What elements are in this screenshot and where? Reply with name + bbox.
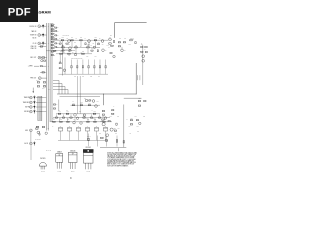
capacitor C3 <box>42 41 44 45</box>
label value 51 <box>115 133 117 135</box>
wire J1 to bus <box>41 25 47 27</box>
resistor RB10 <box>51 47 55 49</box>
wire lowtick3 <box>70 114 72 117</box>
svg-text:R69: R69 <box>79 110 81 112</box>
svg-text:22k: 22k <box>110 35 112 37</box>
svg-text:R25: R25 <box>68 51 70 53</box>
svg-text:Q22: Q22 <box>114 128 116 130</box>
wire lowtick9 <box>74 118 76 121</box>
capacitor CL5 <box>94 60 96 75</box>
svg-text:C23: C23 <box>89 101 91 103</box>
svg-text:C44: C44 <box>108 47 110 49</box>
svg-text:R95 4.7: R95 4.7 <box>87 136 91 138</box>
svg-text:4.7k: 4.7k <box>129 133 131 135</box>
svg-text:R33: R33 <box>82 76 84 78</box>
resistor RB11 <box>51 51 55 53</box>
svg-text:LINE-1 IN: LINE-1 IN <box>30 46 36 48</box>
resistor R77f <box>90 117 92 118</box>
label value 8 <box>80 45 82 47</box>
resistor R11 <box>40 72 46 73</box>
label REC OUT <box>30 57 36 59</box>
wire low row 2 <box>51 121 113 123</box>
resistor R27 <box>59 41 61 44</box>
svg-text:TAPE IN: TAPE IN <box>31 30 36 33</box>
resistor R84 <box>116 123 117 125</box>
wire lowtick10 <box>87 118 89 121</box>
input jack JB5 <box>25 129 32 132</box>
svg-text:C28: C28 <box>143 116 145 118</box>
fuse F3 <box>76 126 80 131</box>
wire JB5 link <box>30 132 32 143</box>
svg-text:R76: R76 <box>115 133 117 135</box>
label value 42 <box>110 35 112 37</box>
svg-text:2SC2921: 2SC2921 <box>85 147 91 149</box>
label row1b values <box>60 42 95 44</box>
svg-text:GND: GND <box>25 130 28 132</box>
resistor R67 <box>144 100 146 101</box>
wire mid row 3 <box>56 53 92 55</box>
svg-text:B C E: B C E <box>87 171 90 173</box>
label value 47 <box>118 128 120 130</box>
wire vdrop2 <box>76 76 78 114</box>
resistor R21 <box>62 45 65 48</box>
transistor Q9 <box>142 59 145 62</box>
svg-text:56k: 56k <box>60 42 62 44</box>
svg-text:PRE OUT: PRE OUT <box>30 78 36 80</box>
resistor RC3 <box>55 35 59 37</box>
svg-text:F0: F0 <box>52 126 54 128</box>
label value 46 <box>106 127 108 129</box>
resistor R68 <box>138 105 140 106</box>
label pkg row left <box>46 150 52 152</box>
svg-text:R24: R24 <box>60 51 62 53</box>
resistor R66 <box>138 98 141 101</box>
input jack JB1 TAPE PB <box>24 96 32 99</box>
wire ladder bottom <box>59 73 109 75</box>
label value 13 <box>87 55 89 57</box>
wire V4 <box>95 41 97 47</box>
label AUX-2 IN <box>30 48 36 50</box>
svg-text:C4: C4 <box>85 38 87 40</box>
wire V6 <box>62 48 64 53</box>
fuse F4 <box>85 126 89 131</box>
svg-text:AC IN: AC IN <box>25 142 29 145</box>
bus junction N5 <box>47 65 50 68</box>
svg-text:2k: 2k <box>57 35 59 37</box>
label FUNCTION bar <box>38 96 42 120</box>
svg-text:C31 C32 C33 C34 C35: C31 C32 C33 C34 C35 <box>71 57 83 59</box>
resistor R53 <box>141 51 143 52</box>
resistor R77b <box>55 117 57 118</box>
node FB1 <box>102 93 105 96</box>
resistor R86 <box>101 137 104 138</box>
resistor RB9 <box>51 44 55 46</box>
label MD IN <box>33 37 37 39</box>
capacitor CB4 <box>33 110 35 114</box>
resistor R65 <box>88 102 91 105</box>
svg-text:PDF: PDF <box>8 7 31 19</box>
ground G1 <box>38 131 41 136</box>
label value 53 <box>137 131 139 133</box>
bus wire B3 <box>49 23 51 122</box>
svg-text:R29: R29 <box>98 41 100 43</box>
svg-text:TAPE REC: TAPE REC <box>23 101 29 104</box>
bus wire B4 <box>51 23 53 122</box>
label value 31 <box>86 118 88 120</box>
wire V7 <box>75 48 77 53</box>
label value 44 <box>113 106 115 108</box>
wire fuse rail <box>58 139 108 141</box>
wire JB4 <box>36 111 47 113</box>
wire lowtick4 <box>83 114 85 117</box>
wire Q7 <box>121 47 123 49</box>
resistor R79 <box>103 119 106 122</box>
resistor R87 <box>130 117 133 120</box>
resistor R23 <box>87 45 90 48</box>
svg-text:MD IN: MD IN <box>33 37 37 39</box>
label value 22 <box>89 101 91 103</box>
resistor R80 <box>112 110 114 111</box>
transistor Q3 <box>101 40 104 46</box>
svg-text:Q1: Q1 <box>68 43 70 45</box>
package TO220 label <box>70 150 76 152</box>
wire sel vert 2 <box>64 58 66 75</box>
wire vdrop1 <box>58 100 60 111</box>
wire lowtick2 <box>63 114 65 117</box>
resistor R12 <box>61 37 64 41</box>
label value 54 <box>48 128 50 130</box>
label value 10 <box>64 52 66 54</box>
label value 15 <box>68 55 70 57</box>
svg-text:R31: R31 <box>59 61 61 63</box>
resistor R93 <box>106 139 107 141</box>
svg-text:1k: 1k <box>54 36 56 38</box>
svg-text:T1 POWER: T1 POWER <box>35 139 41 141</box>
transistor Q5 <box>74 53 77 56</box>
svg-text:R30: R30 <box>91 48 93 50</box>
resistor R75 <box>60 119 63 122</box>
svg-text:R73: R73 <box>93 111 95 113</box>
svg-text:S1-b: S1-b <box>42 88 45 90</box>
wire JB6 down <box>30 145 32 160</box>
fuse F6 <box>103 126 107 131</box>
wire row2b <box>58 50 75 52</box>
svg-text:R87: R87 <box>131 117 133 119</box>
transistor Q14 <box>80 122 83 125</box>
label value 35 <box>110 116 112 118</box>
label SPKR <box>28 66 33 68</box>
relay RY1 <box>41 57 47 62</box>
input jack JB2 TAPE REC <box>23 101 32 104</box>
label value 19 <box>98 76 100 78</box>
svg-text:1k: 1k <box>56 104 58 106</box>
label value 49 <box>137 126 139 128</box>
resistor R77d <box>70 117 72 118</box>
svg-text:9: 9 <box>70 177 72 180</box>
svg-text:R10: R10 <box>95 55 97 57</box>
transistor Q23 <box>106 134 109 137</box>
svg-text:R18: R18 <box>94 37 96 39</box>
svg-text:NOTICE FOR IMPROVEMENT.: NOTICE FOR IMPROVEMENT. <box>107 165 129 167</box>
package TO92 pins <box>41 171 44 173</box>
resistor R97 <box>123 141 124 143</box>
svg-text:100k: 100k <box>129 44 132 46</box>
capacitor CL1 <box>71 60 73 75</box>
svg-text:B C E: B C E <box>58 171 61 173</box>
input jack J6 <box>34 66 46 67</box>
svg-text:B C E: B C E <box>71 171 74 173</box>
svg-text:F1: F1 <box>60 126 62 128</box>
svg-text:2k: 2k <box>57 30 59 32</box>
wire low row 1 <box>56 113 100 115</box>
resistor R77e <box>83 117 85 118</box>
package TO220 <box>69 152 78 169</box>
svg-text:R3: R3 <box>76 38 78 40</box>
transistor Q10 <box>63 69 66 72</box>
label value 23 <box>58 110 60 112</box>
resistor R77g <box>98 117 100 118</box>
label value 36 <box>117 116 119 118</box>
resistor R73 <box>93 111 96 114</box>
svg-text:C30: C30 <box>99 133 101 135</box>
svg-text:C6: C6 <box>72 45 74 47</box>
resistor R26 <box>82 51 85 54</box>
resistor RB3 <box>51 29 55 31</box>
svg-text:R66: R66 <box>139 98 141 100</box>
resistor R72 <box>66 111 69 114</box>
input jack J5 <box>38 56 41 59</box>
transistor Q25 <box>45 132 47 134</box>
bus junction N3 <box>47 42 50 45</box>
svg-text:10k: 10k <box>129 126 131 128</box>
label value 24 <box>66 110 68 112</box>
PDF badge <box>0 0 38 22</box>
wire lowtick7 <box>59 118 61 121</box>
package TO126 label <box>57 152 62 154</box>
svg-text:Q16: Q16 <box>102 116 104 118</box>
wire F6 drop <box>105 131 107 140</box>
bus junction N4 <box>45 56 48 59</box>
svg-text:B+: B+ <box>145 49 147 51</box>
wire F1 drop <box>60 131 62 140</box>
bus wire B1 <box>45 23 47 131</box>
wire V5 <box>88 41 90 47</box>
svg-text:R72: R72 <box>110 116 112 118</box>
resistor R35 <box>62 50 64 51</box>
label value 33 <box>102 118 104 120</box>
label value 4 <box>85 38 87 40</box>
wire J3 to bus <box>41 42 47 44</box>
wire vdrop3 <box>79 76 81 114</box>
label value 5 <box>99 38 101 40</box>
wire bus H2 <box>60 95 101 97</box>
transistor Q8 <box>142 55 145 58</box>
label value 40 <box>119 38 121 40</box>
resistor R54 <box>145 51 147 52</box>
svg-text:C22: C22 <box>90 76 92 78</box>
resistor R45 <box>118 42 120 43</box>
capacitor C2 <box>42 33 44 37</box>
wire F5 drop <box>96 131 98 140</box>
resistor R63 <box>72 102 75 105</box>
svg-text:R7: R7 <box>91 45 93 47</box>
svg-text:2.2k: 2.2k <box>74 42 76 44</box>
resistor R82 <box>102 119 104 120</box>
row mute <box>46 50 58 51</box>
node FB2 <box>135 93 138 96</box>
wire V8 <box>87 48 89 53</box>
notes text block <box>107 148 137 167</box>
capacitor CL2 <box>76 60 78 75</box>
package TO3P label <box>85 147 91 149</box>
resistor R89 <box>130 124 132 125</box>
label value 1 <box>59 38 61 40</box>
wire bend W3 <box>53 87 65 95</box>
resistor R91 <box>36 126 39 127</box>
wire feedback <box>103 63 136 105</box>
page number 9 <box>70 177 72 180</box>
label value 16 <box>74 76 76 78</box>
label value 29 <box>67 118 69 120</box>
resistor RB7 <box>51 39 55 41</box>
input jack J7 <box>38 77 46 80</box>
wire bend W4 <box>53 90 68 95</box>
transistor Q4 <box>69 47 72 50</box>
resistor R94 <box>116 140 117 142</box>
wire V9 <box>59 54 61 62</box>
svg-text:C21: C21 <box>74 76 76 78</box>
label value 18 <box>90 76 92 78</box>
svg-text:Q7: Q7 <box>124 50 126 52</box>
resistor R60 <box>89 100 91 101</box>
resistor R74 <box>53 119 56 122</box>
resistor R51 <box>141 44 144 47</box>
resistor R46 <box>123 42 125 43</box>
resistor R83 <box>108 121 110 122</box>
wire V1 <box>62 41 64 47</box>
svg-text:MD PB: MD PB <box>25 107 29 109</box>
wire V3 <box>80 41 82 47</box>
wire sel vert 1 <box>62 45 64 76</box>
label value 50 <box>99 133 101 135</box>
resistor R31 <box>59 61 61 64</box>
label value 52 <box>129 133 131 135</box>
wire out rail <box>123 105 125 148</box>
label right rail <box>145 49 147 51</box>
svg-text:2SB649: 2SB649 <box>57 152 62 154</box>
transistor Q11 <box>74 114 77 117</box>
capacitor CB2 <box>33 100 35 104</box>
svg-text:R42: R42 <box>107 45 109 47</box>
transistor Q21 <box>100 121 105 126</box>
fuse F1 <box>58 126 62 131</box>
wire F3 drop <box>78 131 80 140</box>
resistor R43 <box>130 37 133 40</box>
label row2 values <box>63 49 70 51</box>
wire drop D4 <box>88 134 90 147</box>
title SCHEMATIC DIAGRAM <box>7 9 51 14</box>
wire drop D2 <box>106 136 108 147</box>
label value 11 <box>72 52 74 54</box>
label value 20 <box>73 101 75 103</box>
capacitor CL4 <box>88 60 90 75</box>
input jack J3 CD IN <box>33 42 41 45</box>
resistor R44 <box>108 45 113 49</box>
wire lowtick1 <box>56 114 58 117</box>
resistor RB12 <box>51 54 55 56</box>
transistor Q1 <box>68 40 71 46</box>
svg-text:2k: 2k <box>57 27 59 29</box>
label value 56 <box>44 85 46 87</box>
svg-text:R75: R75 <box>137 126 139 128</box>
resistor RB1 <box>51 24 55 26</box>
label value 17 <box>82 76 84 78</box>
resistor R29 <box>97 41 99 44</box>
bus junction N6 <box>45 77 48 80</box>
input jack J1 PHONO IN <box>30 25 41 28</box>
label PRE OUT <box>30 78 36 80</box>
wire to power amp <box>115 23 147 38</box>
transistor Q24 <box>139 122 141 124</box>
resistor R76 <box>67 119 70 122</box>
resistor RC5 <box>55 43 59 45</box>
svg-text:330 0.022 10k: 330 0.022 10k <box>63 49 70 51</box>
svg-text:CD IN: CD IN <box>33 43 37 45</box>
svg-text:1k: 1k <box>80 45 82 47</box>
svg-text:R62: R62 <box>81 101 83 103</box>
svg-text:R26: R26 <box>82 51 84 53</box>
bus junction N1 <box>47 25 50 28</box>
resistor R78 <box>94 119 97 122</box>
label value 34 <box>102 116 104 118</box>
resistor RC6 <box>55 46 59 48</box>
label value 3 <box>76 38 78 40</box>
svg-text:C14: C14 <box>49 89 51 91</box>
wire lowtick11 <box>94 118 96 121</box>
transistor Q7 <box>121 49 126 52</box>
resistor RB4 <box>51 31 55 33</box>
resistor RD1 <box>53 104 57 106</box>
resistor R36 <box>69 50 71 51</box>
label bottom left <box>35 139 41 141</box>
transistor QB1 <box>37 131 39 133</box>
label value 26 <box>91 110 93 112</box>
resistor R77 <box>87 119 90 122</box>
svg-text:NOTE: ALL RESISTANCE VALUES IN: NOTE: ALL RESISTANCE VALUES IN OHM. <box>107 151 137 154</box>
capacitor C1 <box>42 24 44 28</box>
svg-text:F5: F5 <box>96 126 98 128</box>
label value 43 <box>141 43 143 45</box>
wire right rail <box>142 45 144 85</box>
wire JB2 <box>36 101 47 103</box>
svg-text:R12: R12 <box>61 37 63 39</box>
label value 6 <box>62 45 64 47</box>
svg-text:E C B: E C B <box>41 171 44 173</box>
capacitor CL7 <box>105 60 107 75</box>
resistor R80c <box>102 114 104 115</box>
resistor R96 <box>88 138 89 140</box>
svg-text:R8: R8 <box>72 52 74 54</box>
resistor R42 <box>107 43 112 47</box>
svg-text:C27: C27 <box>117 116 119 118</box>
resistor R85 <box>114 130 116 131</box>
svg-text:2SC1815: 2SC1815 <box>40 158 46 160</box>
svg-text:F4: F4 <box>87 126 89 128</box>
input jack JB4 MD REC <box>24 110 32 113</box>
input jack JB3 MD PB <box>25 106 32 109</box>
label value 9 <box>91 45 93 47</box>
bus junction N2 <box>45 34 48 37</box>
